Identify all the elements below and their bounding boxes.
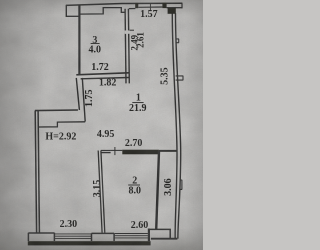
film grain overlay [0, 0, 203, 250]
wall east inner line [172, 13, 177, 238]
wall room3 east line2 [127, 9, 130, 84]
wall room3 south line1 [76, 73, 128, 75]
label room 2 underline [128, 184, 140, 186]
wall kitchen west line2 [101, 151, 105, 233]
wall kitchen north door line [111, 149, 123, 151]
wire top wall inner line right part [167, 7, 183, 9]
wall room3 east line1 [124, 9, 127, 84]
wall room3 south line2 [81, 78, 129, 79]
tab east wall middle [176, 76, 184, 80]
wall east outer line [175, 13, 180, 238]
tab east wall lower [180, 180, 182, 189]
tick window W1 center [149, 3, 151, 10]
wire top wall inner line with step [79, 8, 135, 15]
niche left wall [65, 5, 67, 17]
label room 3 underline [91, 43, 100, 45]
wall kitchen north solid bar [122, 150, 159, 155]
pier window W3 right [148, 229, 150, 242]
pier foot left [28, 233, 54, 241]
window W2 glazing lines [55, 234, 91, 239]
wall hall west line2 [82, 78, 85, 122]
wall hall west line1 [76, 78, 79, 110]
wall room3 west [78, 5, 80, 74]
wire top outer wall line [66, 3, 183, 5]
wall bottom right outer edge [151, 238, 178, 240]
wall bottom thick [28, 241, 151, 245]
wall east top block [168, 8, 176, 14]
paper background [0, 0, 203, 250]
window W1 jamb left block [135, 3, 138, 8]
wire top wall right cap [181, 3, 183, 8]
window W3 glazing lines [115, 234, 148, 238]
wall west line2 [38, 111, 39, 233]
wall corner southeast vertical [169, 229, 171, 238]
tick on room3 east wall [130, 29, 134, 31]
tick kitchen door [114, 147, 116, 155]
wall west line1 [35, 111, 36, 233]
label room 1 underline [132, 102, 143, 104]
wall kitchen north thin right part [159, 150, 177, 152]
wall kitchen west line1 [98, 151, 102, 233]
pier foot middle [92, 233, 115, 241]
wall break at tick [125, 30, 130, 34]
wall kitchen north stub lines [101, 151, 111, 153]
window W1 glazing line [138, 6, 162, 8]
wall room1 north inner [39, 122, 85, 127]
tab east wall upper [176, 39, 179, 43]
wall kitchen east [156, 151, 159, 229]
window W1 jamb right block [162, 3, 166, 8]
niche bottom wall [66, 15, 79, 17]
wall room1 north outer [35, 109, 78, 112]
wall kitchen south inner line [148, 228, 171, 230]
